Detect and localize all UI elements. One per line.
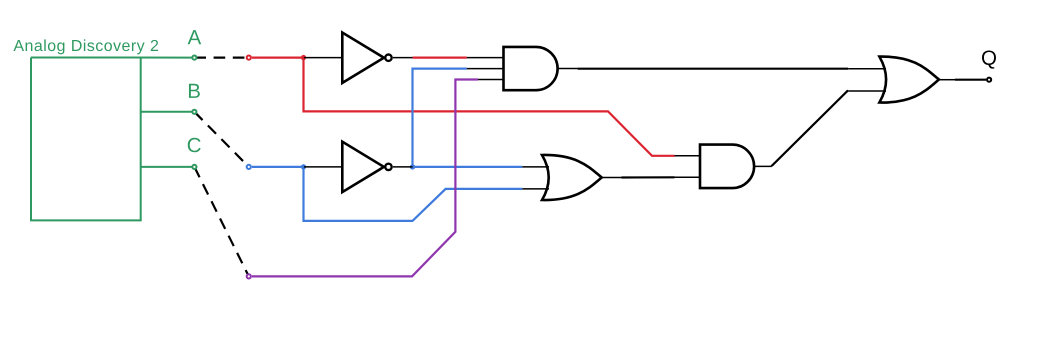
AND gate U4 — [504, 47, 558, 90]
lead inverter2 output — [393, 166, 413, 168]
lead OR2 input 1 — [522, 166, 549, 168]
lead AND1 input 1 — [467, 57, 504, 59]
switch dashed wire C — [194, 167, 248, 277]
lead OR3 input 2 — [848, 90, 886, 92]
junction dot blue at inverter2 output — [410, 164, 415, 169]
node blue terminal (open circle) — [247, 165, 251, 169]
lead inverter1 input — [304, 57, 342, 59]
wire purple bus to AND1 bottom input — [252, 80, 478, 277]
inverter U2 (NOT gate) — [342, 33, 391, 83]
wire black output Q — [955, 79, 986, 81]
lead OR3 input 1 — [848, 68, 886, 70]
lead OR3 output — [939, 79, 955, 81]
lead AND1 output — [558, 68, 578, 70]
label B — [189, 84, 200, 98]
terminal C (green open circle) — [192, 165, 196, 169]
lead inverter2 input — [304, 166, 342, 168]
lead OR2 input 2 — [522, 188, 549, 190]
label C — [188, 138, 201, 153]
lead OR2 output — [602, 177, 622, 179]
wire blue inverter2 out to OR1 top input — [413, 166, 523, 168]
node purple terminal (open circle) — [247, 274, 251, 278]
wire blue C to junction — [252, 166, 304, 168]
terminal A (green open circle) — [192, 56, 196, 60]
wire black OR2 out to AND2 — [622, 176, 675, 178]
lead AND2 output — [754, 165, 772, 167]
wire pin B (green) — [141, 111, 192, 113]
wire blue up to AND1 middle input — [413, 69, 467, 167]
junction dot blue left — [301, 164, 306, 169]
wire pin C (green) — [141, 166, 192, 168]
switch dashed wire A — [194, 56, 248, 58]
OR gate U5 — [542, 155, 602, 200]
wire red A to junction — [252, 56, 304, 58]
wire red inverter1 out — [413, 56, 467, 58]
label A — [188, 30, 202, 44]
terminal B (green open circle) — [192, 110, 196, 114]
lead inverter1 output — [393, 57, 413, 59]
junction dot red — [301, 55, 306, 60]
lead AND1 input 2 — [467, 68, 504, 70]
label Q — [982, 50, 996, 68]
AND gate U6 — [700, 145, 754, 189]
inverter U3 (NOT gate) — [342, 142, 391, 192]
node red terminal (open circle) — [247, 56, 251, 60]
wire pin A (green) — [31, 57, 192, 59]
lead AND2 input 2 — [675, 176, 701, 178]
OR gate U7 — [879, 57, 939, 103]
IC box U1 Analog Discovery 2 — [31, 58, 141, 221]
wire red bus down and across — [304, 58, 675, 156]
lead AND2 input 1 — [675, 155, 701, 157]
terminal Q (open circle) — [987, 78, 991, 82]
wire black AND2 out diagonal up to OR3 lower input — [772, 91, 848, 166]
wire black AND1 out to OR3 top input — [578, 68, 849, 70]
label Analog Discovery 2 — [13, 39, 158, 54]
lead AND1 input 3 — [478, 79, 504, 81]
wire blue bus down and across to OR1 lower input — [304, 167, 523, 221]
switch dashed wire B — [194, 112, 248, 167]
